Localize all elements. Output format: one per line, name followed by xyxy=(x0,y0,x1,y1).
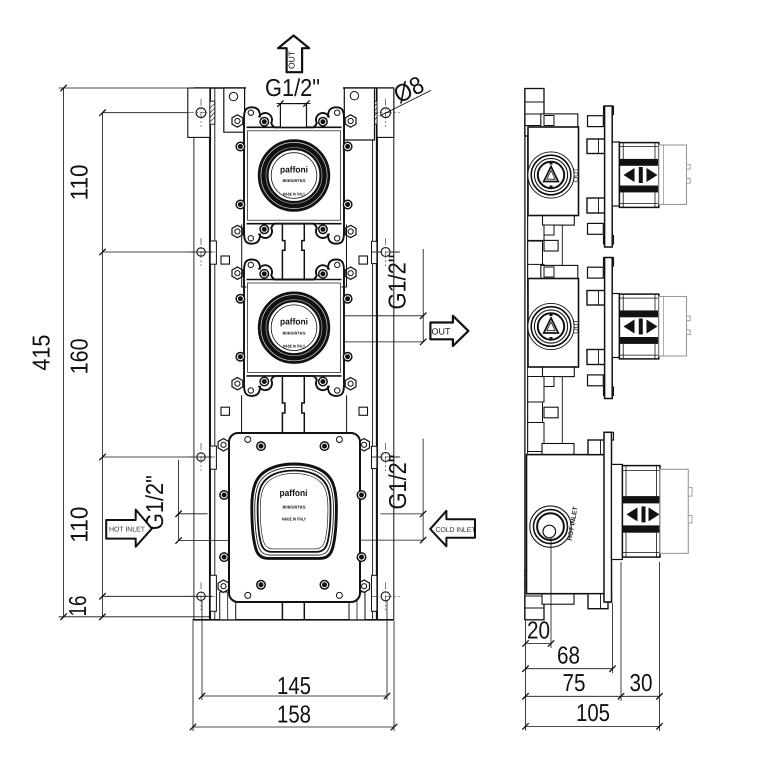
bottom bracket tab right xyxy=(349,592,365,620)
svg-text:16: 16 xyxy=(65,596,92,617)
connector below M3 xyxy=(281,602,283,620)
side flange module 1 xyxy=(604,106,614,114)
square hole left gap1 xyxy=(221,256,230,264)
left rail tab row 3 xyxy=(210,446,216,469)
svg-text:MADE IN ITALY: MADE IN ITALY xyxy=(283,191,305,196)
top hanging bracket left xyxy=(224,88,245,132)
hex nuts M2 xyxy=(232,267,243,279)
svg-text:105: 105 xyxy=(576,700,610,727)
M3 corner tab holes xyxy=(245,437,251,443)
row extension lines xyxy=(103,112,188,114)
side web plates between M2 and M3 xyxy=(241,395,243,433)
side view wall plate xyxy=(524,89,526,620)
side square hole gap2 xyxy=(544,407,558,418)
left mounting bracket row 1 xyxy=(188,88,210,137)
side view module 1 body cap plates xyxy=(541,114,578,127)
side cartridge module 1 xyxy=(619,143,658,208)
svg-text:MADE IN ITALY: MADE IN ITALY xyxy=(283,344,305,349)
side bottom bracket stack xyxy=(525,570,544,620)
G1/2 dim cold inlet xyxy=(380,513,423,515)
left wall-plate edge line xyxy=(193,88,195,620)
svg-text:8065/876S: 8065/876S xyxy=(283,330,306,335)
side bolts module 1 xyxy=(587,139,605,154)
svg-text:OUT: OUT xyxy=(287,51,297,69)
connector M1-M2 xyxy=(282,224,285,280)
HOT INLET arrow xyxy=(106,510,152,547)
side web plates between M1 and M2 xyxy=(242,225,247,288)
side dial module 1 xyxy=(528,152,574,198)
svg-text:30: 30 xyxy=(630,670,653,697)
side wall tab stack gap2 xyxy=(528,377,544,403)
svg-text:8065/876S: 8065/876S xyxy=(283,178,306,183)
svg-text:OUT: OUT xyxy=(573,319,580,333)
M3 corner screws xyxy=(256,441,266,451)
svg-text:110: 110 xyxy=(66,507,93,543)
cartridge ring M2 xyxy=(258,292,329,363)
side wall tab stack gap1 xyxy=(528,212,544,240)
svg-text:75: 75 xyxy=(563,670,586,697)
side neck module 3 xyxy=(612,464,623,559)
svg-text:160: 160 xyxy=(66,338,93,374)
side view module 2 body xyxy=(528,279,579,368)
svg-text:COLD INLET: COLD INLET xyxy=(436,527,477,534)
svg-text:paffoni: paffoni xyxy=(280,164,308,174)
frame bottom edge xyxy=(193,619,395,621)
dim 75 / 30 xyxy=(620,562,622,701)
cartridge arrows module 1 xyxy=(624,168,635,182)
valve module M1 plate xyxy=(244,107,344,243)
side bolts module 2 xyxy=(587,291,605,306)
bottom bracket tab left xyxy=(220,592,236,620)
side module 1 right outer bolts xyxy=(588,116,604,127)
svg-text:20: 20 xyxy=(527,618,550,645)
G1/2 dim module2 out xyxy=(343,315,423,317)
M3 hex nuts xyxy=(218,439,229,451)
M3 side screws xyxy=(219,490,229,500)
side web gap2 xyxy=(561,376,563,451)
svg-text:8065/876S: 8065/876S xyxy=(283,505,306,510)
dim 105 xyxy=(526,725,660,727)
side web gap1 xyxy=(561,225,563,266)
side inlet dial module 3 xyxy=(530,506,571,547)
side square hole gap1 xyxy=(544,240,558,251)
svg-text:MADE IN ITALY: MADE IN ITALY xyxy=(282,517,306,522)
svg-text:415: 415 xyxy=(29,335,56,371)
M3 gasket outline xyxy=(252,464,337,558)
corner screws M1 xyxy=(259,117,269,127)
dim line G1/2 top xyxy=(277,103,311,105)
svg-text:HOT INLET: HOT INLET xyxy=(109,527,146,534)
connector M2-M3 xyxy=(282,376,285,433)
side screws M1 xyxy=(235,142,245,152)
dim 145 xyxy=(201,601,203,700)
cartridge arrows module 3 xyxy=(627,507,638,521)
svg-text:paffoni: paffoni xyxy=(280,317,308,327)
side neck module 1 xyxy=(612,142,619,206)
left rail tab row 2 xyxy=(210,241,216,264)
corner screws M2 xyxy=(259,269,269,279)
G1/2 top outlet port M1 xyxy=(280,104,306,128)
OUT up arrow xyxy=(278,36,309,73)
svg-text:158: 158 xyxy=(277,702,311,729)
square hole left gap2 xyxy=(221,407,230,415)
COLD INLET arrow xyxy=(430,511,475,547)
svg-text:68: 68 xyxy=(557,643,580,670)
OUT right arrow xyxy=(430,316,468,346)
left rail xyxy=(209,88,211,620)
right rail xyxy=(372,88,374,620)
hex nuts M1 xyxy=(232,115,243,127)
dim segments line xyxy=(102,113,104,617)
right rail tab row 4 xyxy=(372,575,377,611)
side flange module 3 xyxy=(606,432,614,440)
dim 68 xyxy=(612,603,614,673)
cartridge arrows module 2 xyxy=(624,320,635,334)
dim 158 xyxy=(192,621,194,731)
square hole right gap2 xyxy=(359,407,368,415)
left rail tab row 4 xyxy=(210,575,216,611)
label Ø8 with leader xyxy=(380,90,431,116)
valve module M3 plate xyxy=(229,433,360,602)
svg-text:G1/2": G1/2" xyxy=(385,455,412,510)
side cartridge module 2 xyxy=(619,294,658,359)
right wall-plate edge line xyxy=(393,88,395,620)
side view module 1 body xyxy=(528,127,579,216)
triangle symbol module 1 xyxy=(544,167,559,182)
svg-text:paffoni: paffoni xyxy=(280,488,308,498)
frame top edge xyxy=(194,87,246,89)
valve module M2 plate xyxy=(244,260,344,396)
svg-text:145: 145 xyxy=(277,673,311,700)
side screws M2 xyxy=(235,294,245,304)
svg-text:OUT: OUT xyxy=(432,327,452,337)
dim 20 xyxy=(550,537,552,648)
svg-text:OUT: OUT xyxy=(573,168,580,182)
side module 2 right outer bolts xyxy=(588,267,604,278)
top hanging bracket right xyxy=(344,88,374,140)
svg-text:G1/2": G1/2" xyxy=(265,75,320,102)
dim 415 xyxy=(63,88,65,617)
side view module 3 body xyxy=(527,455,609,594)
G1/2 dim hot inlet xyxy=(179,513,208,515)
right rail tab row 3 xyxy=(372,446,377,468)
side view module 2 body cap plates xyxy=(541,265,578,278)
side cartridge module 3 xyxy=(622,466,660,557)
side dims xyxy=(525,621,527,731)
side neck module 2 xyxy=(612,294,619,358)
side end cap module 3 xyxy=(660,469,688,553)
side bolts module 3 xyxy=(588,440,608,455)
right mounting bracket row 1 xyxy=(377,88,394,137)
cartridge ring M1 xyxy=(258,140,329,211)
side top bracket stack xyxy=(525,89,544,137)
right rail tab row 2 xyxy=(372,241,377,263)
side flange module 2 xyxy=(604,258,614,266)
side end cap module 1 xyxy=(659,145,687,205)
square hole right gap1 xyxy=(359,256,368,264)
side end cap module 2 xyxy=(659,297,687,357)
triangle symbol module 2 xyxy=(544,318,559,333)
svg-text:G1/2": G1/2" xyxy=(385,255,412,310)
side dial module 2 xyxy=(528,303,574,349)
side module 3 cap plates xyxy=(542,444,574,455)
svg-text:110: 110 xyxy=(66,164,93,200)
